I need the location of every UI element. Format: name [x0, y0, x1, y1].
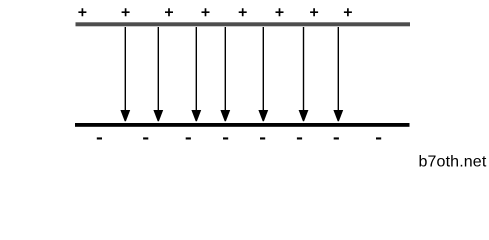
svg-text:b7oth.net: b7oth.net: [419, 153, 487, 170]
